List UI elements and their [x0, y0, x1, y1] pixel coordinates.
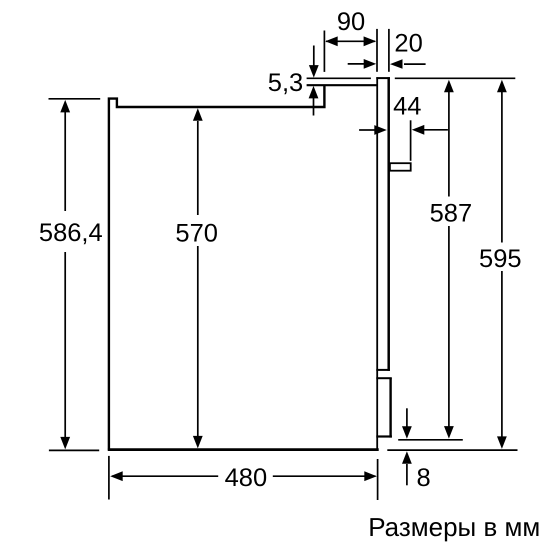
svg-text:570: 570 — [175, 220, 218, 248]
svg-text:90: 90 — [337, 8, 365, 36]
svg-text:595: 595 — [479, 245, 522, 273]
svg-text:5,3: 5,3 — [268, 69, 303, 97]
svg-text:20: 20 — [394, 30, 422, 58]
svg-text:586,4: 586,4 — [39, 219, 103, 247]
svg-text:Размеры в мм: Размеры в мм — [368, 512, 540, 542]
svg-text:587: 587 — [430, 200, 473, 228]
svg-text:480: 480 — [225, 464, 268, 492]
svg-text:8: 8 — [417, 464, 431, 492]
svg-text:44: 44 — [393, 92, 421, 120]
